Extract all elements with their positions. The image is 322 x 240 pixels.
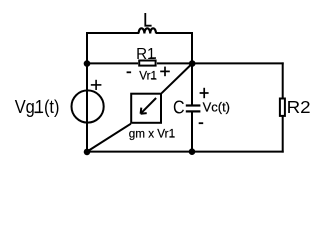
resistor R1 body — [139, 61, 155, 66]
svg-text:C: C — [173, 96, 185, 117]
svg-text:R1: R1 — [136, 46, 155, 63]
label gm x Vr1 — [129, 126, 176, 140]
wire node to right corner — [192, 62, 284, 64]
node dot bottom capacitor — [189, 148, 196, 155]
wire bottom horizontal — [86, 151, 284, 153]
dependent source arrow — [141, 98, 157, 114]
wire right vertical below R2 — [282, 116, 284, 153]
dependent current source box gm x Vr1 — [131, 94, 161, 123]
wire top horizontal left of L — [86, 32, 139, 34]
wire diagonal dependent source to node — [162, 64, 193, 94]
wire diagonal lower-left to dependent source — [87, 124, 131, 152]
wire capacitor branch upper — [191, 64, 193, 106]
label R1 — [136, 46, 156, 63]
capacitor C top plate — [186, 104, 201, 106]
wire R1 row right — [157, 62, 192, 64]
minus sign of Vc(t) — [199, 122, 204, 124]
capacitor C bottom plate — [186, 110, 201, 112]
label L — [145, 13, 151, 26]
svg-text:gm x Vr1: gm x Vr1 — [129, 126, 176, 140]
svg-text:Vr1: Vr1 — [139, 68, 157, 82]
svg-text:Vc(t): Vc(t) — [203, 101, 230, 115]
label Vr1 — [139, 68, 157, 82]
wire top horizontal right of L — [156, 32, 193, 34]
wire left vertical — [86, 32, 88, 153]
wire right vertical of top loop — [191, 32, 193, 64]
plus sign of Vr1 — [160, 67, 170, 77]
wire R1 row left — [87, 62, 138, 64]
inductor L coil — [139, 28, 156, 33]
voltage source Vg1 circle — [72, 90, 104, 122]
label Vg1(t) — [15, 97, 60, 117]
node dot bottom left — [84, 149, 91, 156]
plus sign of Vc(t) — [200, 88, 209, 98]
minus sign of Vr1 — [127, 71, 132, 73]
node dot at R1 right — [189, 60, 196, 67]
plus sign of Vg1 — [91, 80, 102, 90]
node dot at R1 left — [84, 60, 91, 67]
svg-text:R2: R2 — [287, 97, 311, 117]
wire right vertical above R2 — [282, 62, 284, 98]
resistor R2 body — [280, 99, 285, 116]
svg-text:Vg1(t): Vg1(t) — [15, 97, 60, 117]
wire capacitor branch lower — [191, 112, 193, 152]
